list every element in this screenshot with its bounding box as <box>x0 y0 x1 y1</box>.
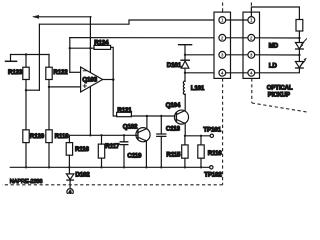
svg-text:D102: D102 <box>75 172 90 179</box>
wire pin3 <box>185 54 219 56</box>
resistor R118 <box>46 130 52 143</box>
node feedback left junction <box>69 47 71 49</box>
laser diode LD <box>295 62 303 68</box>
node R122 bottom / +input junction <box>48 86 50 88</box>
resistor R124 <box>94 45 111 49</box>
test point TP102 <box>210 166 213 169</box>
connector CN board box1 <box>214 12 231 78</box>
resistor R116 (second) <box>200 136 202 145</box>
pin numbers <box>221 18 253 76</box>
resistor R123 <box>23 67 29 79</box>
node feedback-bus junction <box>89 47 91 49</box>
ground rail <box>10 166 209 168</box>
svg-text:R115: R115 <box>166 152 181 159</box>
svg-text:4: 4 <box>69 190 72 194</box>
wire feedback horizontal to R124 <box>70 47 94 49</box>
svg-text:MD: MD <box>269 43 279 50</box>
svg-text:R116: R116 <box>208 150 223 157</box>
svg-text:R123: R123 <box>8 69 23 76</box>
capacitor C118 <box>160 116 162 134</box>
wire minus input <box>70 71 81 73</box>
op-amp Q103 <box>81 67 103 92</box>
svg-text:R121: R121 <box>117 107 132 114</box>
resistor R120 <box>23 130 29 143</box>
wire minus-net vertical x69.8 <box>69 38 71 73</box>
svg-text:R118: R118 <box>55 133 70 140</box>
node C118 top junction <box>160 115 162 117</box>
svg-text:TP101: TP101 <box>203 126 221 133</box>
resistor R122 <box>46 67 52 79</box>
diode D102 <box>68 167 70 174</box>
resistor R117 <box>100 134 102 136</box>
supply T bar <box>179 44 192 46</box>
wire Q102 base line <box>69 134 135 136</box>
wire pin2 to MD node <box>255 37 300 39</box>
MD arrow <box>302 39 307 45</box>
svg-text:R122: R122 <box>53 69 68 76</box>
wire opamp output stub <box>103 79 114 81</box>
diode D101 <box>184 55 186 60</box>
wire jog to R123 bottom <box>26 89 39 91</box>
svg-text:D101: D101 <box>167 62 182 69</box>
node pin4 tap <box>184 72 186 74</box>
capacitor C119 <box>123 134 125 136</box>
pin circles box2 <box>248 17 255 77</box>
wire arrow output left <box>34 16 91 18</box>
wire R123 bottom to R120 <box>25 90 27 130</box>
dashed boundary pickup connector <box>250 3 252 13</box>
test point TP101 <box>210 134 213 137</box>
wire R121 right to Q104 base <box>131 115 174 117</box>
wire L101 to Q104 collector <box>184 93 186 95</box>
svg-text:C118: C118 <box>166 126 181 133</box>
svg-text:NAPRE-2386: NAPRE-2386 <box>10 179 43 185</box>
svg-text:C119: C119 <box>127 153 142 160</box>
node pin3 tap <box>184 54 186 56</box>
svg-text:R117: R117 <box>105 143 120 150</box>
connector pickup box2 <box>243 12 260 78</box>
transistor Q102 <box>136 128 150 142</box>
photodiode MD <box>295 43 303 49</box>
svg-text:R116: R116 <box>75 146 90 153</box>
wire LD to pin4 <box>255 68 300 73</box>
wire Q104 emitter row to TP101 <box>185 135 210 137</box>
dashed board boundary left connector <box>2 3 307 185</box>
node R123 top <box>25 53 27 55</box>
resistor pickup <box>296 20 303 32</box>
node MD-LD mid <box>298 49 300 62</box>
resistor R116 <box>68 135 70 142</box>
dashed bottom board edge <box>2 184 223 186</box>
wire pin3 to mid node <box>255 54 300 56</box>
node bus-baseline junction <box>89 134 91 136</box>
dashed pickup bottom edge <box>252 103 307 112</box>
ground bar symbol top-left <box>10 55 12 62</box>
node opamp output <box>112 78 115 81</box>
transistor Q104 <box>174 110 188 124</box>
resistor R121 <box>117 112 132 116</box>
wire pin4 <box>185 72 219 74</box>
wire pin1 net vertical x39.4 <box>38 24 40 90</box>
wire pin2 net y37.6 <box>70 37 219 39</box>
svg-text:R120: R120 <box>30 133 45 140</box>
svg-text:Q104: Q104 <box>166 102 181 109</box>
LD arrow <box>300 61 305 67</box>
svg-text:R124: R124 <box>94 39 109 46</box>
node MD top <box>298 37 300 39</box>
node Q102 collector junction <box>146 115 148 117</box>
terminal circled 4 bottom <box>67 189 73 195</box>
wire R122 junction down to R118 <box>48 87 50 130</box>
svg-text:L101: L101 <box>191 85 205 92</box>
wire R124 right to output bus <box>111 47 117 116</box>
resistor R115 <box>184 136 186 145</box>
svg-text:Q103: Q103 <box>82 77 97 84</box>
node R123 bottom junction <box>25 89 27 91</box>
pin circles box1 <box>219 17 226 77</box>
wire +input <box>49 86 81 88</box>
inductor L101 <box>184 73 186 82</box>
wire bias rail y54.5 <box>11 54 50 56</box>
wire pickup top feed <box>251 7 299 20</box>
wire pin1 net horizontal with jog <box>39 20 219 24</box>
svg-text:TP102: TP102 <box>204 172 222 179</box>
svg-text:LD: LD <box>269 63 278 70</box>
svg-text:Q102: Q102 <box>123 124 138 131</box>
svg-text:PICKUP: PICKUP <box>268 92 290 98</box>
wire vertical bus x90.4 from arrow down to Q102 base line <box>89 17 91 136</box>
svg-text:OPTICAL: OPTICAL <box>267 85 293 91</box>
link wires between connectors <box>226 20 248 73</box>
